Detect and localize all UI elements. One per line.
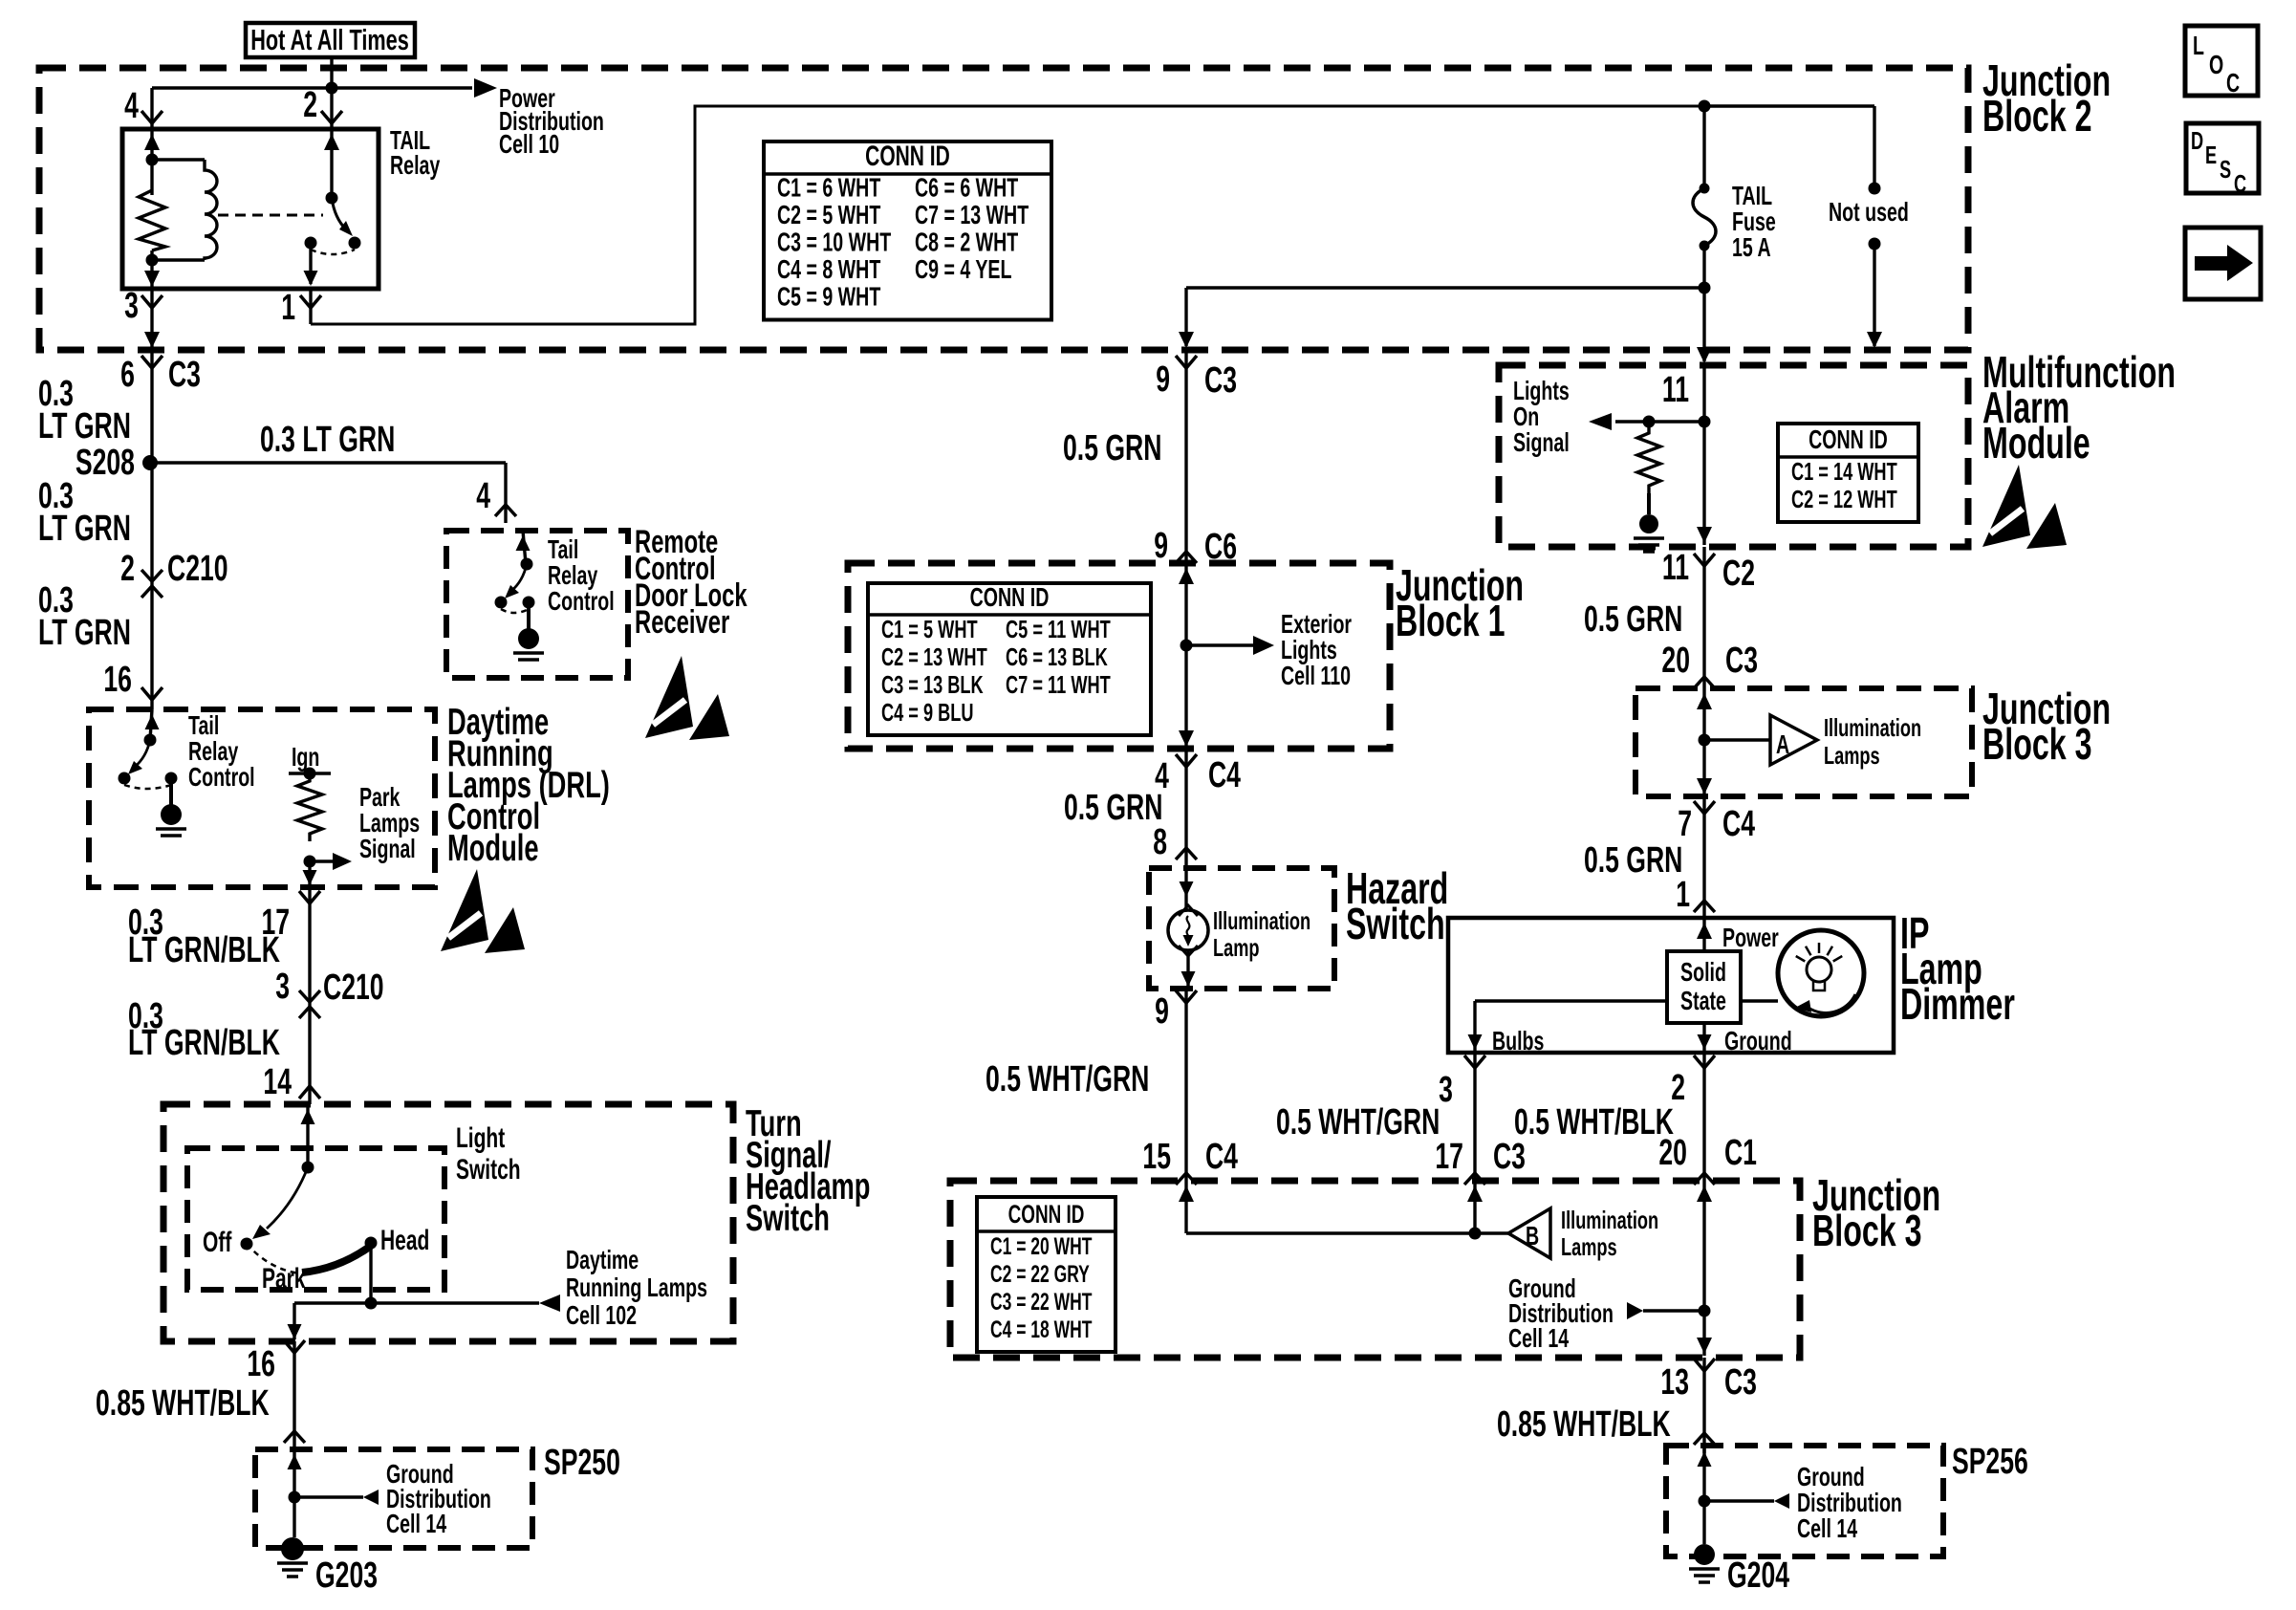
svg-text:Dimmer: Dimmer	[1900, 980, 2015, 1029]
svg-text:C2 = 12 WHT: C2 = 12 WHT	[1791, 486, 1897, 513]
svg-text:C1 = 14 WHT: C1 = 14 WHT	[1791, 458, 1897, 486]
svg-text:CONN ID: CONN ID	[1809, 425, 1888, 455]
svg-text:Running Lamps: Running Lamps	[566, 1273, 707, 1303]
svg-text:C6 = 6 WHT: C6 = 6 WHT	[915, 173, 1019, 203]
svg-text:C2 = 13 WHT: C2 = 13 WHT	[881, 643, 987, 671]
svg-text:0.5 WHT/GRN: 0.5 WHT/GRN	[1276, 1100, 1440, 1142]
svg-text:0.5 GRN: 0.5 GRN	[1584, 838, 1682, 880]
svg-text:Switch: Switch	[1346, 900, 1445, 948]
svg-text:Lamps: Lamps	[1561, 1233, 1617, 1261]
svg-text:C4 = 18 WHT: C4 = 18 WHT	[990, 1316, 1092, 1343]
svg-text:Control: Control	[548, 587, 615, 617]
svg-text:C1 = 6 WHT: C1 = 6 WHT	[777, 173, 881, 203]
svg-text:CONN ID: CONN ID	[865, 141, 950, 172]
svg-text:C3 = 10 WHT: C3 = 10 WHT	[777, 228, 891, 257]
svg-text:0.5 WHT/GRN: 0.5 WHT/GRN	[986, 1057, 1149, 1099]
svg-text:0.85 WHT/BLK: 0.85 WHT/BLK	[1497, 1403, 1671, 1444]
svg-text:LT GRN/BLK: LT GRN/BLK	[128, 928, 280, 969]
svg-text:C2: C2	[1722, 552, 1755, 593]
svg-text:Off: Off	[203, 1228, 232, 1258]
svg-text:C4: C4	[1208, 753, 1242, 794]
svg-text:C3: C3	[1724, 1360, 1757, 1402]
svg-text:C9 = 4 YEL: C9 = 4 YEL	[915, 255, 1012, 285]
svg-text:C210: C210	[167, 547, 228, 588]
svg-text:C1 = 20 WHT: C1 = 20 WHT	[990, 1232, 1092, 1260]
svg-text:D: D	[2191, 127, 2203, 155]
svg-text:Switch: Switch	[456, 1155, 521, 1186]
svg-text:C5 = 11 WHT: C5 = 11 WHT	[1006, 616, 1111, 643]
svg-text:1: 1	[1676, 873, 1690, 914]
svg-text:7: 7	[1678, 802, 1692, 843]
svg-text:15 A: 15 A	[1732, 233, 1771, 263]
svg-text:Bulbs: Bulbs	[1492, 1027, 1544, 1056]
svg-text:G203: G203	[315, 1554, 378, 1595]
svg-text:3: 3	[275, 965, 290, 1006]
svg-text:SP256: SP256	[1952, 1440, 2028, 1481]
svg-text:Module: Module	[1982, 419, 2090, 468]
svg-text:C3: C3	[168, 353, 201, 394]
svg-text:C1 = 5 WHT: C1 = 5 WHT	[881, 616, 978, 643]
svg-text:SP250: SP250	[544, 1441, 620, 1482]
svg-text:11: 11	[1662, 546, 1689, 587]
svg-text:0.85 WHT/BLK: 0.85 WHT/BLK	[96, 1382, 270, 1423]
svg-text:0.5 WHT/BLK: 0.5 WHT/BLK	[1514, 1100, 1674, 1142]
svg-text:C3 = 22 WHT: C3 = 22 WHT	[990, 1288, 1092, 1316]
svg-text:A: A	[1776, 730, 1789, 760]
svg-text:C1: C1	[1724, 1131, 1757, 1172]
svg-text:G204: G204	[1727, 1554, 1790, 1595]
svg-text:Park: Park	[262, 1264, 306, 1295]
svg-text:CONN ID: CONN ID	[970, 583, 1050, 613]
svg-text:9: 9	[1155, 990, 1169, 1031]
svg-text:C4 = 9 BLU: C4 = 9 BLU	[881, 699, 974, 727]
svg-text:L: L	[2193, 32, 2204, 61]
svg-text:Not used: Not used	[1829, 198, 1909, 228]
svg-text:C7 = 13 WHT: C7 = 13 WHT	[915, 201, 1029, 230]
svg-text:C2 = 22 GRY: C2 = 22 GRY	[990, 1260, 1090, 1288]
svg-text:20: 20	[1658, 1131, 1687, 1172]
svg-text:Switch: Switch	[746, 1198, 830, 1239]
svg-text:8: 8	[1153, 820, 1167, 861]
svg-text:S: S	[2220, 156, 2231, 184]
svg-text:14: 14	[263, 1060, 292, 1101]
svg-text:4: 4	[124, 84, 139, 125]
svg-text:Block 3: Block 3	[1982, 720, 2092, 769]
svg-text:Cell 10: Cell 10	[499, 130, 559, 160]
svg-text:Hot At All Times: Hot At All Times	[250, 23, 409, 56]
svg-text:S208: S208	[76, 441, 135, 482]
svg-text:13: 13	[1660, 1360, 1689, 1402]
svg-text:C2 = 5 WHT: C2 = 5 WHT	[777, 201, 881, 230]
svg-text:C210: C210	[323, 966, 384, 1007]
svg-text:Lamps: Lamps	[1824, 742, 1880, 770]
svg-text:2: 2	[303, 83, 317, 124]
svg-text:20: 20	[1661, 639, 1690, 680]
svg-text:C7 = 11 WHT: C7 = 11 WHT	[1006, 671, 1111, 699]
svg-text:6: 6	[120, 353, 135, 394]
svg-text:1: 1	[281, 286, 295, 327]
svg-text:16: 16	[103, 658, 132, 699]
svg-text:Solid: Solid	[1680, 958, 1726, 988]
svg-text:LT GRN: LT GRN	[38, 404, 131, 446]
svg-text:Cell 14: Cell 14	[1797, 1514, 1858, 1544]
svg-text:CONN ID: CONN ID	[1008, 1200, 1085, 1229]
svg-text:C4: C4	[1722, 802, 1756, 843]
svg-text:Illumination: Illumination	[1824, 714, 1921, 742]
svg-text:LT GRN: LT GRN	[38, 507, 131, 548]
svg-text:4: 4	[476, 474, 490, 515]
svg-text:3: 3	[124, 284, 139, 325]
svg-text:Block 1: Block 1	[1396, 597, 1505, 645]
svg-text:O: O	[2209, 51, 2223, 80]
svg-text:Lamp: Lamp	[1213, 934, 1260, 962]
svg-text:Receiver: Receiver	[635, 604, 729, 641]
svg-text:C4: C4	[1205, 1135, 1239, 1176]
svg-text:Signal: Signal	[1513, 428, 1570, 458]
svg-text:Daytime: Daytime	[566, 1246, 639, 1275]
svg-text:B: B	[1526, 1222, 1539, 1251]
svg-text:Cell 14: Cell 14	[1508, 1324, 1570, 1354]
svg-text:Ign: Ign	[292, 743, 319, 772]
svg-text:17: 17	[1435, 1135, 1463, 1176]
svg-text:Power: Power	[1722, 924, 1779, 953]
svg-text:0.5 GRN: 0.5 GRN	[1064, 786, 1162, 827]
svg-text:9: 9	[1156, 358, 1170, 399]
svg-text:Relay: Relay	[390, 151, 441, 181]
svg-text:Ground: Ground	[1724, 1027, 1792, 1056]
svg-text:Signal: Signal	[359, 835, 416, 864]
svg-text:C3: C3	[1204, 359, 1237, 400]
svg-text:C6 = 13 BLK: C6 = 13 BLK	[1006, 643, 1108, 671]
svg-text:3: 3	[1439, 1068, 1453, 1109]
svg-text:Module: Module	[447, 828, 539, 869]
svg-text:Illumination: Illumination	[1561, 1207, 1658, 1234]
svg-text:E: E	[2205, 141, 2217, 169]
svg-text:LT GRN: LT GRN	[38, 611, 131, 652]
svg-text:11: 11	[1662, 368, 1689, 409]
svg-text:C3: C3	[1725, 639, 1758, 680]
svg-text:Control: Control	[188, 763, 255, 793]
svg-text:State: State	[1680, 987, 1726, 1016]
svg-text:Cell 102: Cell 102	[566, 1301, 637, 1331]
svg-text:C: C	[2226, 69, 2240, 98]
svg-text:LT GRN/BLK: LT GRN/BLK	[128, 1021, 280, 1062]
svg-text:Cell 14: Cell 14	[386, 1510, 447, 1539]
svg-text:15: 15	[1142, 1135, 1171, 1176]
svg-text:Cell 110: Cell 110	[1281, 662, 1351, 691]
svg-text:C3 = 13 BLK: C3 = 13 BLK	[881, 671, 984, 699]
svg-text:Block 2: Block 2	[1982, 92, 2092, 141]
svg-text:0.5 GRN: 0.5 GRN	[1063, 426, 1161, 468]
svg-text:16: 16	[247, 1342, 275, 1383]
svg-text:0.5 GRN: 0.5 GRN	[1584, 598, 1682, 639]
svg-text:C8 = 2 WHT: C8 = 2 WHT	[915, 228, 1019, 257]
svg-text:C4 = 8 WHT: C4 = 8 WHT	[777, 255, 881, 285]
svg-text:C5 = 9 WHT: C5 = 9 WHT	[777, 282, 881, 312]
svg-text:2: 2	[120, 547, 135, 588]
svg-text:Light: Light	[456, 1123, 506, 1154]
svg-text:Block 3: Block 3	[1812, 1207, 1922, 1255]
svg-text:9: 9	[1154, 524, 1168, 565]
svg-text:Illumination: Illumination	[1213, 907, 1310, 935]
svg-text:0.3 LT GRN: 0.3 LT GRN	[260, 418, 395, 459]
svg-text:Head: Head	[380, 1226, 429, 1256]
svg-text:C: C	[2234, 170, 2246, 198]
